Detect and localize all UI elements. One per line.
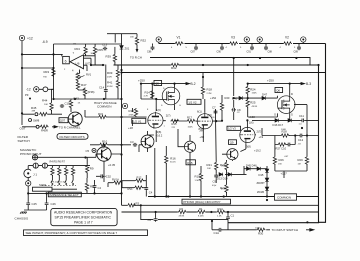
- svg-text:C3: C3: [130, 140, 134, 144]
- svg-text:ZD1B: ZD1B: [257, 190, 264, 194]
- svg-text:R45: R45: [31, 106, 37, 110]
- label Q5 box: [154, 81, 162, 86]
- svg-text:TO R CHANNEL: TO R CHANNEL: [59, 126, 81, 130]
- svg-text:R2: R2: [180, 207, 184, 211]
- svg-text:221K: 221K: [222, 166, 228, 168]
- svg-text:RV1: RV1: [86, 73, 92, 77]
- svg-text:(R36): (R36): [88, 90, 95, 94]
- wire bottom bus 2: [122, 211, 319, 213]
- svg-text:ZD05T: ZD05T: [257, 181, 266, 185]
- resistor R25: [246, 99, 249, 108]
- svg-text:AUDIO RESEARCH CORPORATION: AUDIO RESEARCH CORPORATION: [54, 210, 113, 214]
- resistor R26: [273, 156, 276, 165]
- svg-text:10K: 10K: [44, 104, 48, 106]
- svg-text:4: 4: [171, 47, 173, 49]
- terminal -12 b: [43, 87, 48, 92]
- transistor Q1: [97, 147, 111, 161]
- svg-text:4: 4: [280, 47, 282, 49]
- capacitor C46: [45, 202, 49, 206]
- capacitor C4: [144, 186, 148, 190]
- resistor R21: [215, 162, 218, 171]
- svg-text:1/2 V2: 1/2 V2: [188, 100, 197, 104]
- switch SW11 contacts: [51, 175, 73, 183]
- op-amp U6: [70, 55, 84, 69]
- capacitor C86: [151, 46, 155, 50]
- jack J1 a: [33, 163, 38, 168]
- jack J0: [32, 155, 37, 160]
- svg-text:V2: V2: [285, 36, 289, 40]
- wire V2 links: [196, 73, 222, 143]
- resistor R41: [116, 80, 119, 89]
- svg-text:+18: +18: [128, 126, 133, 130]
- svg-text:R14: R14: [145, 91, 151, 95]
- pin 6 box: [63, 56, 70, 63]
- switch SW11: [42, 185, 76, 187]
- heater resistor V2: [283, 42, 292, 45]
- svg-text:1.0: 1.0: [299, 124, 303, 126]
- svg-text:1(6): 1(6): [249, 121, 254, 125]
- svg-text:D16 D17: D16 D17: [273, 123, 284, 127]
- wire R31 link: [85, 110, 122, 117]
- wire caps to ground: [24, 193, 47, 210]
- svg-text:Z01: Z01: [125, 47, 130, 51]
- transistor Q9: [227, 149, 238, 160]
- svg-text:C89: C89: [294, 51, 299, 54]
- svg-text:100K: 100K: [188, 127, 194, 129]
- svg-text:SP15 PREAMPLIFIER SCHEMATIC: SP15 PREAMPLIFIER SCHEMATIC: [55, 215, 112, 219]
- resistor R45: [39, 113, 48, 116]
- jack J1 b: [42, 163, 47, 168]
- svg-text:CHASSIS: CHASSIS: [15, 216, 29, 220]
- svg-text:8.25K: 8.25K: [198, 216, 204, 218]
- wire bottom bus 3: [141, 205, 228, 219]
- capacitor C13: [103, 47, 107, 51]
- svg-text:D45 D46: D45 D46: [246, 163, 257, 167]
- svg-text:10K: 10K: [207, 168, 211, 170]
- svg-text:47K 100 1K 30K: 47K 100 1K 30K: [51, 182, 67, 184]
- capacitor C4: [93, 184, 97, 188]
- svg-text:.01: .01: [212, 117, 216, 119]
- resistor R30: [257, 228, 266, 231]
- label 1/2 V2 box: [187, 99, 201, 104]
- wire left op-amp column: [53, 44, 55, 99]
- wire +250 right feed: [248, 83, 301, 85]
- svg-text:C4: C4: [98, 186, 102, 190]
- svg-text:+250: +250: [267, 79, 274, 83]
- svg-text:49.9K: 49.9K: [107, 86, 113, 88]
- svg-text:S: S: [161, 105, 163, 107]
- svg-text:C15: C15: [65, 102, 71, 106]
- svg-text:R1A: R1A: [218, 207, 224, 211]
- svg-text:C11: C11: [299, 114, 304, 118]
- svg-text:150K: 150K: [252, 93, 258, 95]
- svg-text:R26: R26: [279, 158, 285, 162]
- svg-text:47uf: 47uf: [102, 176, 107, 178]
- mosfet Q5: [162, 87, 180, 105]
- label impedance select: [48, 192, 81, 197]
- svg-text:C1: C1: [231, 213, 235, 217]
- capacitor C14: [104, 88, 108, 92]
- resistor R17: [187, 119, 196, 122]
- terminal +12: [19, 35, 24, 40]
- svg-text:R39: R39: [106, 55, 112, 59]
- terminal -12 a: [34, 87, 39, 92]
- capacitor C7: [214, 110, 218, 114]
- svg-text:C52: C52: [106, 175, 112, 179]
- wire +12 bus down: [21, 41, 23, 125]
- terminal J3: [244, 37, 249, 42]
- svg-text:5: 5: [294, 47, 296, 49]
- capacitor C2: [154, 217, 158, 221]
- svg-text:+19.2: +19.2: [254, 148, 261, 152]
- resistor R5: [58, 167, 61, 176]
- svg-text:2(7): 2(7): [257, 130, 262, 134]
- svg-text:R13: R13: [129, 109, 135, 113]
- svg-text:C91: C91: [247, 51, 252, 54]
- svg-text:+90: +90: [200, 135, 205, 139]
- diode D14: [228, 173, 232, 177]
- resistor R4: [51, 167, 54, 176]
- svg-text:RV1A: RV1A: [112, 178, 119, 182]
- svg-text:PHONO INPUT: PHONO INPUT: [20, 152, 42, 156]
- svg-text:R9: R9: [90, 167, 94, 171]
- svg-text:FILTER CIRCUITS: FILTER CIRCUITS: [60, 135, 85, 139]
- resistor R31: [98, 115, 107, 118]
- wire high voltage common bus: [54, 98, 122, 100]
- svg-text:TO R.CH: TO R.CH: [130, 56, 142, 60]
- svg-text:C86: C86: [147, 51, 152, 54]
- label 1/2 V3 box: [227, 126, 241, 130]
- resistor R23: [225, 162, 228, 171]
- svg-text:237K: 237K: [107, 77, 113, 79]
- svg-text:2: 2: [64, 69, 66, 71]
- wire -6.9 feed: [54, 43, 122, 45]
- transistor Q7: [68, 112, 82, 126]
- svg-text:D47: D47: [262, 93, 268, 97]
- mosfet Q6: [277, 96, 295, 114]
- svg-text:47pf: 47pf: [212, 185, 217, 187]
- svg-text:PAGE 1 of 7: PAGE 1 of 7: [74, 221, 93, 225]
- svg-text:C4: C4: [149, 191, 153, 195]
- wire filter node: [22, 89, 62, 114]
- svg-text:+154: +154: [210, 96, 217, 100]
- svg-text:4: 4: [226, 47, 228, 49]
- svg-text:301K: 301K: [91, 53, 97, 55]
- svg-text:C12: C12: [298, 138, 304, 142]
- svg-text:PF: PF: [25, 93, 29, 97]
- capacitor C11: [301, 119, 305, 123]
- wire switch bus: [28, 186, 121, 202]
- resistor R14: [151, 90, 154, 99]
- svg-text:16K: 16K: [130, 37, 134, 39]
- svg-text:100K: 100K: [281, 129, 287, 131]
- resistor R29: [305, 156, 308, 165]
- svg-text:R32: R32: [141, 39, 147, 43]
- svg-text:1/2 V1: 1/2 V1: [133, 119, 142, 123]
- jack ground: [26, 181, 31, 186]
- wire RV block links: [108, 175, 146, 197]
- svg-text:+160: +160: [249, 115, 256, 119]
- capacitor C91: [250, 46, 254, 50]
- svg-text:C46: C46: [51, 202, 57, 206]
- resistor R32: [135, 37, 138, 46]
- svg-text:221: 221: [172, 127, 176, 129]
- ground chassis: [20, 212, 27, 214]
- svg-text:C45: C45: [32, 202, 38, 206]
- label Q9 box: [229, 140, 237, 145]
- diode D16: [275, 119, 279, 123]
- resistor R05: [93, 46, 96, 55]
- svg-text:Q9: Q9: [230, 141, 234, 145]
- diode D47: [262, 96, 266, 100]
- resistor R8: [85, 182, 88, 191]
- svg-text:B-2: B-2: [191, 82, 196, 86]
- resistor RV1: [134, 186, 143, 189]
- svg-text:R8: R8: [90, 185, 94, 189]
- resistor R39: [113, 54, 116, 63]
- resistor R18: [201, 86, 204, 95]
- label Q15 box: [186, 160, 195, 165]
- tube V1: [148, 112, 163, 129]
- resistor R6: [65, 167, 68, 176]
- svg-text:3(8): 3(8): [157, 130, 162, 134]
- wire right section links: [252, 105, 319, 178]
- svg-text:C90: C90: [217, 51, 222, 54]
- svg-text:7: 7: [73, 51, 75, 55]
- wire left inner rail: [121, 65, 123, 205]
- resistor R24: [246, 86, 249, 95]
- svg-text:V1: V1: [177, 36, 181, 40]
- wire +250 left feed: [141, 83, 183, 85]
- wire bottom bus 1: [122, 204, 319, 206]
- svg-text:.047: .047: [284, 156, 289, 158]
- label phono riaa circuitry: [182, 199, 231, 204]
- wire to V2 grid: [180, 120, 196, 122]
- wire op-amp output: [22, 54, 63, 68]
- svg-text:C87: C87: [191, 51, 196, 54]
- wire V1 stage column: [141, 84, 152, 99]
- capacitor C90: [220, 46, 224, 50]
- resistor RV2: [135, 179, 144, 182]
- svg-text:1/2 V3: 1/2 V3: [228, 127, 236, 131]
- svg-text:V3: V3: [231, 36, 235, 40]
- svg-text:U6: U6: [76, 62, 80, 66]
- svg-text:4.7K: 4.7K: [144, 96, 149, 98]
- wire V1 cathode feed: [122, 135, 154, 152]
- svg-text:R09: R09: [107, 71, 113, 75]
- svg-text:R19: R19: [195, 175, 201, 179]
- svg-text:6(1): 6(1): [197, 110, 202, 114]
- svg-text:5: 5: [186, 47, 188, 49]
- resistor R19: [199, 173, 202, 182]
- resistor R20: [220, 102, 223, 111]
- wire -12 link: [39, 88, 54, 90]
- svg-text:R12: R12: [137, 176, 142, 180]
- node B-3 arrow: [301, 83, 305, 85]
- terminal J5: [301, 37, 306, 42]
- svg-text:R45R: R45R: [41, 129, 48, 133]
- terminal J2: [156, 37, 161, 42]
- heater resistor V1: [175, 42, 184, 45]
- svg-text:5: 5: [240, 47, 242, 49]
- resistor R43: [69, 100, 72, 109]
- svg-text:C2: C2: [148, 218, 152, 222]
- svg-text:R29: R29: [298, 158, 304, 162]
- svg-text:R21: R21: [207, 163, 213, 167]
- svg-text:D15: D15: [259, 173, 264, 177]
- tube V2: [197, 113, 212, 130]
- svg-text:49.9K: 49.9K: [252, 106, 258, 108]
- capacitor C8b: [232, 108, 236, 112]
- svg-text:Q6: Q6: [276, 89, 280, 93]
- capacitor C1: [226, 216, 230, 220]
- svg-text:6: 6: [65, 60, 67, 64]
- trimmer RV1 op-amp: [76, 73, 79, 82]
- svg-text:1M: 1M: [73, 44, 76, 46]
- svg-text:R17: R17: [187, 116, 192, 120]
- svg-text:30.1K: 30.1K: [170, 162, 176, 164]
- svg-text:COMMON: COMMON: [97, 105, 111, 109]
- title block: [51, 208, 117, 225]
- svg-text:Q07: Q07: [60, 119, 66, 123]
- svg-text:C14: C14: [99, 86, 105, 90]
- svg-text:15K: 15K: [278, 164, 282, 166]
- capacitor C89: [297, 46, 301, 50]
- capacitor C52: [100, 174, 104, 178]
- svg-text:G: G: [179, 105, 181, 107]
- svg-text:C1A: C1A: [214, 231, 220, 235]
- svg-text:R30: R30: [258, 231, 264, 235]
- wire common links: [267, 196, 275, 198]
- svg-text:R18: R18: [207, 88, 213, 92]
- svg-text:R27 C10: R27 C10: [276, 147, 287, 151]
- label filter circuits box: [57, 134, 88, 140]
- wire rail B1: [150, 58, 310, 66]
- wire tube V1 links: [122, 99, 179, 142]
- svg-text:SEE PATENT, PROPRIETARY, & COP: SEE PATENT, PROPRIETARY, & COPYRIGHT NOT…: [26, 231, 118, 235]
- wire heater rail: [159, 43, 326, 45]
- resistor R42: [171, 63, 180, 66]
- connector J1 rca: [24, 169, 31, 177]
- svg-text:D: D: [291, 92, 293, 96]
- svg-text:3(8): 3(8): [246, 144, 251, 148]
- svg-text:R1: R1: [199, 207, 203, 211]
- svg-text:6.8K: 6.8K: [101, 148, 106, 150]
- svg-text:1.2K: 1.2K: [217, 216, 222, 218]
- svg-text:R3: R3: [136, 202, 140, 206]
- zener ZD1B: [265, 187, 269, 191]
- svg-text:.22: .22: [237, 112, 241, 114]
- wire Q15 links: [148, 116, 217, 197]
- svg-text:S: S: [291, 113, 293, 117]
- resistor R13: [134, 108, 137, 117]
- svg-text:499: 499: [32, 111, 36, 113]
- label common box: [275, 194, 297, 200]
- svg-text:R25: R25: [250, 101, 256, 105]
- wire diode chain: [222, 120, 267, 196]
- svg-text:Q5: Q5: [155, 82, 159, 86]
- wire op-amp column verticals: [78, 65, 118, 100]
- svg-text:R47: R47: [81, 83, 87, 87]
- resistor R03: [52, 68, 55, 77]
- resistor RV1A: [113, 181, 122, 184]
- wire phono stage links: [90, 145, 122, 194]
- svg-text:+12: +12: [27, 37, 33, 41]
- svg-text:PHONO (RIAA) CIRCUITRY: PHONO (RIAA) CIRCUITRY: [183, 200, 220, 204]
- svg-text:SWITCH: SWITCH: [18, 139, 30, 143]
- capacitor C87: [194, 46, 198, 50]
- resistor R15: [171, 119, 180, 122]
- svg-text:R41: R41: [107, 81, 113, 85]
- svg-text:R31: R31: [98, 112, 104, 116]
- wire phono top bus: [28, 157, 90, 180]
- diode D46: [257, 167, 261, 171]
- svg-text:TO INPUT SWITCH: TO INPUT SWITCH: [272, 228, 299, 232]
- resistor R1A: [216, 210, 225, 213]
- svg-text:SW11: SW11: [39, 183, 47, 187]
- svg-text:+250: +250: [138, 79, 145, 83]
- resistor R47: [76, 81, 79, 90]
- resistor R27 capacitor C10: [278, 143, 287, 146]
- svg-text:R24: R24: [250, 88, 256, 92]
- svg-text:G: G: [274, 113, 276, 117]
- diode D15: [265, 169, 269, 173]
- capacitor C12: [299, 134, 303, 138]
- svg-text:R10: R10: [102, 140, 108, 144]
- wire rail B3: [122, 44, 326, 223]
- capacitor C45: [26, 202, 30, 206]
- svg-text:R03: R03: [44, 70, 50, 74]
- svg-text:R04: R04: [75, 47, 81, 51]
- svg-text:R15: R15: [172, 122, 177, 126]
- svg-text:COMMON: COMMON: [277, 196, 291, 200]
- diode D48: [239, 96, 243, 100]
- svg-text:1.5K: 1.5K: [195, 180, 200, 182]
- capacitor C15: [60, 104, 64, 108]
- wire rail B2: [91, 65, 319, 223]
- transistor Q15: [184, 141, 195, 152]
- resistor R3: [127, 204, 136, 207]
- svg-text:7: 7: [164, 126, 166, 128]
- label Q07 box: [59, 118, 68, 123]
- svg-text:100K: 100K: [255, 228, 261, 230]
- svg-text:4: 4: [72, 69, 74, 73]
- resistor R7: [71, 167, 74, 176]
- resistor R16: [165, 155, 168, 164]
- capacitor C1A: [218, 228, 222, 232]
- svg-text:J 1: J 1: [33, 173, 37, 177]
- node TO R CHANNEL arrow: [52, 126, 58, 128]
- capacitor C88: [264, 46, 268, 50]
- wire cathode common bus: [148, 196, 319, 198]
- resistor R44: [50, 102, 53, 111]
- tube V3: [240, 126, 255, 143]
- svg-text:.33: .33: [298, 144, 302, 146]
- svg-text:-12: -12: [26, 88, 31, 92]
- svg-text:49.9K: 49.9K: [179, 216, 185, 218]
- resistor R22: [225, 184, 228, 193]
- svg-text:2.2M: 2.2M: [207, 93, 212, 95]
- switch SW8: [29, 119, 32, 122]
- capacitor C3: [133, 143, 137, 147]
- svg-text:C88: C88: [268, 51, 273, 54]
- resistor R36: [83, 88, 86, 97]
- zener Z01: [120, 46, 124, 50]
- label Q6 box: [275, 88, 283, 93]
- svg-text:R42: R42: [171, 66, 177, 70]
- svg-text:C5: C5: [86, 149, 90, 153]
- label 1/2 V1 box: [132, 118, 146, 123]
